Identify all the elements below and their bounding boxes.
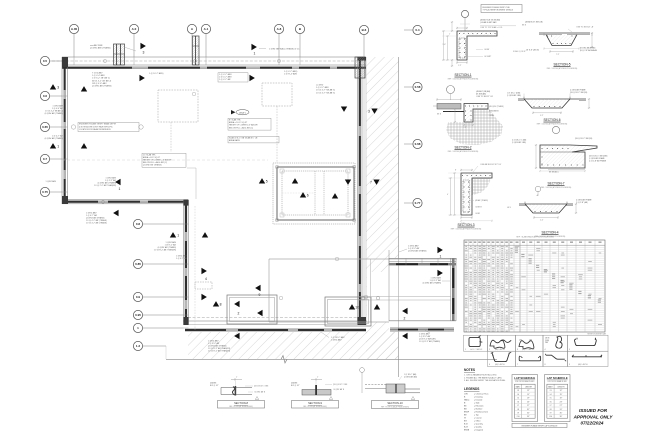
marker keynote (up) [332, 193, 338, 198]
marker keynote (left) [402, 333, 407, 339]
dashed pit box upper-middle [262, 83, 292, 106]
leader for grid 1 [143, 327, 184, 329]
svg-text:9: 9 [569, 364, 570, 366]
svg-text:2: 2 [489, 349, 490, 351]
svg-text:BKNF: BKNF [464, 412, 470, 414]
svg-text:8: 8 [545, 364, 546, 366]
grid bubble 0.5 [40, 56, 49, 65]
svg-text:REF : 1/3/2/S4 (AT FNDN.PLN.D: REF : 1/3/2/S4 (AT FNDN.PLN.DESIGN) [537, 122, 568, 125]
corner blob lower wall top [184, 200, 189, 206]
column at grid B.6 corner [355, 57, 365, 78]
section-10 vertical dim line [361, 372, 363, 393]
right wall [357, 57, 359, 324]
svg-text:LAP SCHEDULE: LAP SCHEDULE [514, 376, 535, 380]
svg-text:#8: #8 [550, 409, 552, 411]
svg-text:0.5: 0.5 [43, 59, 48, 63]
marker keynote (down) [373, 179, 379, 184]
svg-text:0.9: 0.9 [136, 295, 141, 299]
svg-text:1 @R4' ABV: 1 @R4' ABV [46, 180, 57, 183]
svg-text:5'-2": 5'-2" [540, 115, 544, 117]
svg-text:0.95: 0.95 [135, 313, 141, 317]
svg-text:B" SLAB THK: B" SLAB THK [229, 119, 241, 122]
svg-text:B.6: B.6 [362, 28, 367, 32]
lower-left wall tick marks [184, 223, 189, 225]
svg-text:1: 1 [465, 349, 466, 351]
svg-text:31": 31" [560, 409, 563, 411]
leader for grid 0.58 [404, 86, 413, 88]
svg-text:1: 1 [177, 234, 179, 238]
marker keynote (right) [201, 268, 206, 274]
limit line below building [166, 358, 399, 360]
bar shape: offset z bar [546, 355, 565, 359]
bar shape: double hump bar b [519, 341, 534, 349]
svg-text:REF : 1/3/2/S4 (AT FNDN.PLN.D: REF : 1/3/2/S4 (AT FNDN.PLN.DESIGN) [448, 77, 479, 80]
svg-text:2: 2 [238, 312, 240, 316]
svg-text:= Quantity: = Quantity [474, 423, 483, 426]
leader from note to wall [124, 47, 136, 51]
marker keynote (left) [257, 310, 262, 316]
svg-text:A.00: A.00 [71, 27, 78, 31]
leader for grid A.1 [205, 34, 207, 57]
svg-text:LENGTH: LENGTH [557, 386, 565, 388]
svg-text:6: 6 [489, 364, 490, 366]
svg-text:4: 4 [205, 277, 207, 281]
svg-text:(4B AB' (TRANS): (4B AB' (TRANS) [475, 199, 488, 202]
section-2 new concrete corner [464, 104, 488, 123]
svg-text:(4 @Rb' BB' (TRANS): (4 @Rb' BB' (TRANS) [143, 164, 162, 167]
svg-text:1O @ 2'-2" AB' THAN(3R): 1O @ 2'-2" AB' THAN(3R) [94, 184, 116, 187]
svg-text:3: 3 [57, 86, 59, 90]
grid bubble A.00 [69, 24, 78, 33]
svg-text:#4 BB' B': #4 BB' B' [475, 207, 483, 209]
svg-text:#6: #6 [517, 401, 519, 403]
svg-text:#4 BB': #4 BB' [484, 49, 490, 51]
marker keynote (down) [341, 106, 347, 111]
section-2 bottom dim [464, 124, 473, 126]
lap schedule table [512, 375, 538, 422]
pad footing strip [390, 327, 454, 329]
corner blob top-left [62, 57, 68, 67]
svg-text:AREA = 1LCC SQ.FT: AREA = 1LCC SQ.FT [229, 121, 248, 124]
equipment pit inner dashed outline [282, 171, 348, 215]
svg-text:1O @ R'-2" AB' THAN(3R): 1O @ R'-2" AB' THAN(3R) [208, 350, 231, 353]
svg-text:7: 7 [517, 364, 518, 366]
svg-text:= Reinforcement: = Reinforcement [474, 411, 488, 414]
marker keynote (up) [349, 304, 355, 309]
svg-text:1O @ 4'-7" NE AB' 3): 1O @ 4'-7" NE AB' 3) [316, 91, 335, 94]
grid bubble 1.3 [133, 341, 142, 350]
svg-text:#3: #3 [550, 390, 552, 392]
marker keynote (up) [300, 192, 306, 197]
svg-text:(4 @Rb' AB' (TRANS): (4 @Rb' AB' (TRANS) [45, 112, 64, 115]
svg-text:5: 5 [266, 180, 268, 184]
svg-text:SECTION-9: SECTION-9 [308, 401, 322, 405]
svg-text:B8: B8 [464, 406, 466, 408]
section-3 bottom dims [461, 217, 472, 219]
svg-text:= Side: = Side [474, 403, 479, 405]
svg-text:1O @ R'-2" AB' (TRANS): 1O @ R'-2" AB' (TRANS) [419, 340, 440, 343]
bar shape cell row 1 [464, 335, 488, 351]
dashed grid line 0.7 into plan [62, 159, 268, 161]
marker keynote (up) [213, 301, 219, 306]
leader for grid A.8 [278, 34, 280, 57]
grid bubble A.1 [201, 24, 210, 33]
pad right wall [450, 258, 452, 321]
svg-text:07/22/2024: 07/22/2024 [581, 421, 604, 426]
svg-text:BELOW FILL = AB & BB' (C): BELOW FILL = AB & BB' (C) [229, 126, 253, 129]
svg-text:#3: #3 [517, 390, 519, 392]
dashed pit box upper-left [158, 90, 198, 122]
svg-text:SECTION-4: SECTION-4 [541, 231, 558, 235]
section-7 dims [535, 145, 537, 168]
section-8 slab edge detail [221, 387, 252, 389]
svg-text:1'-2": 1'-2" [464, 127, 468, 129]
svg-text:0.6: 0.6 [43, 94, 48, 98]
section-10 label box [372, 401, 419, 409]
svg-text:REF : 1/3/2/S4 (AT FNDN.PLN.D: REF : 1/3/2/S4 (AT FNDN.PLN.DESIGN) [448, 150, 479, 153]
svg-text:NB(C): NB(C) [464, 400, 470, 402]
marker keynote (up) [170, 232, 176, 237]
section-7 stepped footing section [540, 145, 597, 168]
svg-text:#6: #6 [550, 401, 552, 403]
svg-text:1W @ 4'-6" ABV: 1W @ 4'-6" ABV [92, 82, 107, 85]
svg-text:#7: #7 [550, 405, 552, 407]
svg-text:1'-6": 1'-6" [443, 44, 447, 46]
svg-text:1 @ 4'-7" ABV: 1 @ 4'-7" ABV [219, 76, 232, 79]
dimension tick circles on step wall [101, 200, 104, 203]
svg-text:#4 BB': #4 BB' [489, 115, 495, 117]
svg-text:27": 27" [560, 405, 563, 407]
marker keynote (right) [201, 294, 206, 300]
svg-text:REF : 1/3/2/S4 (AT FNDN.PLN.D: REF : 1/3/2/S4 (AT FNDN.PLN.DESIGN) [451, 227, 482, 230]
svg-text:SLAB @ B'-C" BB' 3B AB B'C" LB: SLAB @ B'-C" BB' 3B AB B'C" LB' [229, 137, 258, 140]
svg-text:#5: #5 [550, 398, 552, 400]
corner blob right-bottom [358, 317, 367, 325]
svg-text:4B 3B: 4B 3B [545, 338, 549, 340]
schedule column emphasis lines [481, 240, 483, 332]
svg-text:REF : 1/3/2/S4 (AT FNDN.PLN.D: REF : 1/3/2/S4 (AT FNDN.PLN.DESIGN) [547, 67, 578, 70]
leader for grid 0.9 [143, 296, 184, 298]
svg-text:= Chemical Than: = Chemical Than [474, 394, 488, 396]
svg-text:31": 31" [527, 409, 530, 411]
bar shape: double hump bar [490, 340, 505, 348]
svg-text:SECTION-2: SECTION-2 [454, 146, 471, 150]
svg-text:4: 4 [545, 349, 546, 351]
section-2 reference bubble [447, 86, 455, 94]
marker keynote (right) [139, 75, 144, 81]
lower-left wall [183, 200, 185, 325]
svg-text:ENGINEER PLEASE VERIFY LAP SCH: ENGINEER PLEASE VERIFY LAP SCHEDULE [522, 424, 559, 427]
section-4 dims [534, 217, 558, 219]
section-8 revision triangle [255, 397, 258, 400]
svg-text:& NOTE AS WE DON'T HAVE SPECIF: & NOTE AS WE DON'T HAVE SPECIFIC [79, 125, 113, 128]
marker keynote (right) [437, 270, 442, 276]
section-4 vertical leader [537, 191, 539, 196]
svg-text:7'-2": 7'-2" [556, 54, 560, 56]
tick circle on pad line [376, 296, 380, 300]
svg-text:# BB' AB 3B B'-B" B'C" LB': # BB' AB 3B B'-B" B'C" LB' [480, 163, 502, 166]
svg-text:= Diagonal: = Diagonal [474, 430, 484, 432]
leader for grid B.6 [363, 35, 365, 57]
corner blob bottom [184, 317, 189, 325]
bar shape: flat channel [519, 356, 540, 361]
svg-text:1'-2": 1'-2" [458, 65, 462, 67]
grid bubble 0.68 [413, 139, 422, 148]
svg-text:AREA BARS: AREA BARS [489, 110, 499, 113]
svg-text:12": 12" [527, 390, 530, 392]
marker keynote (left) [234, 301, 239, 307]
section-1 bottom dimension [457, 62, 467, 64]
svg-text:0.4: 0.4 [415, 28, 420, 32]
svg-text:= Course: = Course [474, 417, 482, 420]
svg-text:12": 12" [560, 390, 563, 392]
lap schedule table [545, 375, 571, 422]
svg-text:1: 1 [57, 145, 59, 149]
svg-text:39": 39" [560, 416, 563, 418]
svg-text:1 @R4' ABV: 1 @R4' ABV [331, 339, 342, 342]
svg-text:T @#4 ABV: T @#4 ABV [92, 72, 103, 75]
svg-text:= Office: = Office [474, 421, 481, 423]
marker keynote (left) [402, 308, 407, 314]
pad middle line [358, 296, 451, 298]
svg-text:SECTION-6: SECTION-6 [543, 118, 560, 122]
svg-text:0.75: 0.75 [42, 190, 48, 194]
line break symbol [281, 356, 287, 363]
svg-text:(4B): (4B) [519, 340, 522, 342]
marker keynote (left) [113, 210, 118, 216]
leader for grid A.0 [133, 34, 135, 57]
svg-text:SECTION-3: SECTION-3 [457, 223, 474, 227]
svg-text:#4 @R4' AB' B: #4 @R4' AB' B [333, 388, 345, 391]
svg-text:(4B): (4B) [529, 340, 532, 342]
svg-text:3. ALL FIGURE VERIFY THE ELEVA: 3. ALL FIGURE VERIFY THE ELEVATION PLAN. [464, 379, 506, 382]
leader for grid 0.8 [143, 223, 184, 225]
svg-text:1. C/W CLEARANCE MUST ACCORD.: 1. C/W CLEARANCE MUST ACCORD. [464, 374, 497, 377]
trench corner circles [279, 296, 283, 300]
svg-text:LAP SCHEDULE: LAP SCHEDULE [547, 376, 568, 380]
svg-text:19": 19" [560, 398, 563, 400]
leader for grid 0.6 [50, 95, 62, 97]
hatch boundary line [398, 57, 400, 377]
section-3 soil stipple right [472, 178, 491, 195]
svg-text:REF : 1/3/2/S4 (AT FNDN.PLN.D: REF : 1/3/2/S4 (AT FNDN.PLN.DESIGN) [541, 186, 572, 189]
section-4 trough section [519, 203, 573, 205]
svg-text:15": 15" [527, 394, 530, 396]
svg-text:= Drawing: = Drawing [474, 396, 483, 399]
svg-text:NOTES: NOTES [464, 368, 475, 372]
section-2 rebar into slab [443, 111, 464, 113]
svg-text:(4 @R4' AB' (TRANS): (4 @R4' AB' (TRANS) [408, 250, 427, 253]
marker keynote (right) [249, 75, 254, 81]
svg-text:7: 7 [370, 181, 372, 185]
svg-text:(1B @ 1B'-C" 3B8 (1B): (1B @ 1B'-C" 3B8 (1B) [575, 138, 593, 140]
marker keynote (up) [259, 178, 265, 183]
svg-text:TYPICAL REINFORCEMENT DETAILS: TYPICAL REINFORCEMENT DETAILS [483, 8, 514, 11]
note block below wall at A.1 [218, 73, 248, 82]
grid bubble 0.77 [413, 198, 422, 207]
marker keynote (up) [50, 84, 56, 89]
svg-text:ENGINEER PLEASE VERIFY BEAM DE: ENGINEER PLEASE VERIFY BEAM DEPTH [79, 123, 117, 126]
grid bubble 0.65 [40, 122, 49, 131]
svg-text:3: 3 [143, 50, 145, 54]
svg-text:#10: #10 [549, 416, 552, 418]
section-2 existing slab (grey) [437, 104, 461, 110]
marker keynote (down) [371, 108, 377, 113]
trench inner edge through strip [370, 259, 372, 322]
grid bubble 0.9 [133, 292, 142, 301]
svg-text:1 @ 4'-7" ABV: 1 @ 4'-7" ABV [219, 73, 232, 76]
grid bubble 1 [133, 323, 142, 332]
marker keynote (right) [140, 43, 145, 49]
svg-text:LEGENDS: LEGENDS [464, 387, 479, 391]
grid bubble B.6 [359, 25, 368, 34]
step wall at grid 0.75 [62, 199, 188, 201]
svg-text:0.77: 0.77 [415, 201, 421, 205]
grid bubble 0.4 [413, 25, 422, 34]
svg-text:1 @ R'-4" ABV: 1 @ R'-4" ABV [284, 73, 298, 76]
section-10 revision triangle [411, 397, 414, 400]
bar shape cell row 2 [488, 351, 516, 366]
grid bubble 0.95 [133, 310, 142, 319]
svg-text:# BB' TO 3B B'-B" +B': # BB' TO 3B B'-B" +B' [576, 27, 594, 29]
svg-text:19": 19" [527, 398, 530, 400]
svg-text:(1B @ B'-B" 1' 3B8: (1B @ B'-B" 1' 3B8 [333, 384, 347, 386]
section-1 reference bubble [461, 10, 468, 17]
grid bubble A [187, 24, 196, 33]
svg-text:1 @R4' BB' WALL (TRANS) @ 1C: 1 @R4' BB' WALL (TRANS) @ 1C [269, 48, 300, 51]
leader [321, 332, 329, 338]
svg-text:#9: #9 [517, 412, 519, 414]
svg-text:(1 @ 2'-B" (AB): (1 @ 2'-B" (AB) [576, 201, 588, 204]
pad left edge [388, 250, 390, 321]
svg-text:(B'-B"): (B'-B") [239, 112, 246, 114]
svg-text:B'8: B'8 [464, 421, 467, 423]
svg-text:(4 @R4' AB' (AB): (4 @R4' AB' (AB) [404, 375, 417, 378]
svg-text:# BB' TO TOP SLAB +/- LVL: # BB' TO TOP SLAB +/- LVL [480, 26, 503, 29]
svg-text:1.3: 1.3 [136, 344, 141, 348]
svg-text:SECTION-1: SECTION-1 [454, 73, 471, 77]
column at grid A [193, 36, 200, 65]
leader for grid 0.68 [404, 143, 413, 145]
bar shape: closed stirrup [469, 337, 480, 346]
svg-text:3B8: 3B8 [545, 342, 548, 344]
section-3 dims [454, 173, 456, 215]
svg-text:8: 8 [220, 303, 222, 307]
svg-text:B+B': B+B' [464, 427, 469, 429]
grid bubble A.8 [274, 24, 283, 33]
svg-text:2. PLEASE ALL THE BARS EQUALLY: 2. PLEASE ALL THE BARS EQUALLY LAPD. [464, 376, 503, 379]
top wall [62, 56, 366, 58]
svg-text:0.58: 0.58 [415, 85, 421, 89]
svg-text:1: 1 [119, 187, 121, 191]
pad bottom edge [389, 320, 456, 322]
svg-text:HEIGHT OF LOWER & 3" ABOVE: HEIGHT OF LOWER & 3" ABOVE [229, 124, 258, 127]
svg-text:ENGINEER PLEASE VERIFY THE: ENGINEER PLEASE VERIFY THE [483, 6, 511, 9]
grid bubble B [295, 24, 304, 33]
svg-text:B.B' @ 1/2": B.B' @ 1/2" [210, 385, 219, 387]
svg-text:#7: #7 [517, 405, 519, 407]
svg-text:A.0: A.0 [132, 27, 137, 31]
svg-text:#4 @R4' AB' B: #4 @R4' AB' B [254, 391, 266, 394]
marker keynote (left) [255, 285, 260, 291]
section-3 wall corner section [461, 173, 492, 215]
svg-text:(1B @ 1B'-C" 3B8 (1B): (1B @ 1B'-C" 3B8 (1B) [570, 92, 588, 94]
grid bubble 0.8 [133, 219, 142, 228]
svg-text:REINFORCEMENT BAR: REINFORCEMENT BAR [587, 332, 606, 335]
bar shape: u with hooks [575, 339, 597, 346]
corner blob right-top [358, 57, 367, 61]
column at grid A.0 [114, 44, 125, 65]
section-8 label box [218, 401, 265, 409]
svg-text:10: 10 [355, 306, 359, 310]
leader for grid A [191, 34, 193, 57]
slab data box centre [228, 118, 271, 130]
leader for grid 0.4 [404, 29, 413, 31]
equipment pit wall outline [277, 167, 354, 220]
svg-text:1 @ 10'-7" ABV): 1 @ 10'-7" ABV) [149, 72, 164, 75]
svg-text:1 @ 4'-7" AB': 1 @ 4'-7" AB' [176, 257, 188, 260]
section-5 dimensions [550, 51, 573, 53]
svg-text:0.8: 0.8 [136, 222, 141, 226]
section-2 soil stipple [446, 109, 503, 145]
svg-text:A.1: A.1 [204, 27, 209, 31]
pad tick marks [388, 258, 390, 266]
bar shape: deep u flared [492, 353, 509, 362]
marker keynote (right) [251, 44, 256, 50]
marker keynote (up) [202, 232, 208, 237]
svg-text:(1 @ 2'-B" AB' FRAME: (1 @ 2'-B" AB' FRAME [589, 159, 607, 162]
svg-text:APPROVAL ONLY: APPROVAL ONLY [573, 414, 614, 419]
svg-text:A.8: A.8 [277, 27, 282, 31]
svg-text:SECTION-10: SECTION-10 [387, 401, 403, 405]
svg-text:SECTION-5: SECTION-5 [553, 63, 570, 67]
corner blob step [62, 196, 68, 204]
svg-text:9: 9 [259, 293, 261, 297]
svg-text:2'-2": 2'-2" [540, 220, 544, 222]
section-9 slab joint detail [302, 390, 331, 396]
slab note box centre-left [142, 153, 186, 167]
engineer verify lap schedule box [512, 423, 567, 427]
section-8 top dim [231, 379, 242, 381]
leader for grid 0.85 [143, 263, 184, 265]
leader [259, 48, 266, 50]
marker keynote (up) [292, 178, 298, 183]
top wall tick marks [73, 57, 75, 65]
svg-text:35": 35" [527, 412, 530, 414]
grid bubble 0.58 [413, 82, 422, 91]
left wall tick marks [62, 60, 68, 62]
hatched strip below building [188, 332, 398, 359]
left wall [61, 57, 63, 204]
leader for grid 0.95 [143, 314, 184, 316]
leader for grid 0.65 [50, 126, 62, 128]
section-2 dims left [454, 109, 456, 122]
svg-text:1 @ 4'-4" ABV: 1 @ 4'-4" ABV [92, 74, 105, 77]
svg-text:(4B @R4' (TRANS): (4B @R4' (TRANS) [489, 105, 504, 108]
svg-text:23": 23" [560, 401, 563, 403]
marker keynote (up) [50, 143, 56, 148]
svg-text:23": 23" [527, 401, 530, 403]
svg-text:= Drawed: = Drawed [474, 399, 482, 402]
svg-text:(W @ 4'-2" 4B" AB' 2): (W @ 4'-2" 4B" AB' 2) [92, 79, 112, 82]
svg-text:#4: #4 [550, 394, 552, 396]
svg-text:BAR#: BAR# [548, 385, 552, 388]
grid bubble A.0 [129, 24, 138, 33]
svg-text:= Top: = Top [474, 415, 479, 417]
marker keynote (up) [81, 143, 87, 148]
section-6 trough section [518, 98, 586, 100]
section-9 label box [292, 401, 339, 409]
